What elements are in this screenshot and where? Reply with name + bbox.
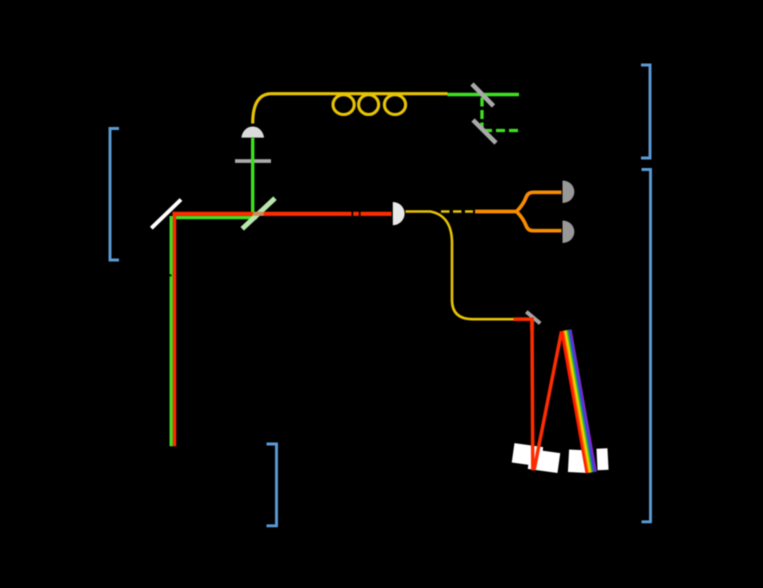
photodetector dome lower (563, 221, 575, 244)
fiber yellow dashed segment (441, 210, 473, 213)
attenuator gray bar (235, 159, 271, 163)
red beam diagonal up to apex (534, 332, 562, 471)
fiber loop 2 (359, 95, 379, 115)
bracket bottom middle (267, 444, 277, 526)
green beam horizontal (dichroic to mirror) (171, 216, 257, 219)
bracket right tall (detection section) (642, 170, 651, 522)
mirror gray top-right upper (472, 84, 494, 106)
green beam segment joint notch (169, 274, 172, 276)
photodetector dome upper (563, 181, 575, 204)
red beam vertical to grating (530, 319, 534, 470)
fiber yellow after collimator to dispersion stage (406, 212, 514, 320)
fiber yellow: collimator to f-2f with coil loops (253, 94, 448, 124)
dichroic/red overlap tint (254, 212, 264, 216)
collimator dome white (dome right) (393, 202, 405, 225)
red beam vertical down-left (173, 213, 176, 446)
fiber loop 1 (333, 95, 354, 115)
red beam horizontal (left of dichroic) (173, 212, 254, 216)
red beam horizontal (right of dichroic, with dash break) (264, 212, 392, 216)
red beam short horizontal at fiber exit (514, 319, 533, 330)
steering mirror white (151, 200, 181, 229)
small gray mirror at fiber exit (526, 312, 540, 324)
green beam vertical dashed (480, 98, 483, 131)
white grating right (two slabs) (568, 448, 609, 473)
mirror gray top-right lower (473, 120, 496, 143)
green beam vertical down-left (170, 216, 173, 446)
bracket right top (f-2f section) (641, 65, 650, 158)
white grating left (two rotated slabs) (512, 443, 561, 473)
fiber loop 3 (384, 95, 405, 115)
green beam vertical (collimator to dichroic) (251, 138, 254, 219)
orange fiber to splitter (475, 210, 517, 214)
bracket left (laser section) (110, 129, 119, 261)
dichroic mirror (pale green diagonal) (242, 198, 275, 229)
green beam lower horizontal dashed (483, 129, 519, 132)
green beam top-right horizontal (448, 93, 520, 97)
collimator dome top (gray, dome up) (241, 126, 264, 137)
fiber splitter Y (517, 192, 562, 211)
